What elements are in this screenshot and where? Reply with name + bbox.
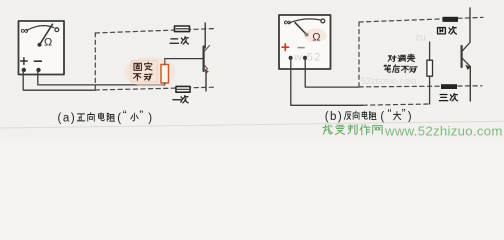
M1 plus terminal label: [21, 58, 28, 65]
dashed bottom wire through first-test resistor: [95, 87, 214, 90]
fixed (do not move) label box: [131, 61, 157, 83]
transistor Q1 emitter lead: [205, 70, 207, 91]
dashed box right circuit left edge: [358, 22, 360, 87]
svg-text:”: ”: [402, 107, 406, 121]
caption (b) parenthetical large: [380, 107, 391, 123]
wire from M2 right terminal down and right: [305, 58, 359, 87]
dashed top wire through fourth-test resistor: [359, 17, 483, 22]
svg-text:(: (: [380, 111, 384, 123]
transistor Q1 emitter slant with arrow: [204, 65, 209, 74]
bottom wire dashed run: [363, 104, 430, 105]
M2 left terminal dot: [289, 56, 293, 60]
svg-text:www.52zhizuo.com: www.52zhizuo.com: [384, 123, 503, 138]
base resistor RB1 (orange): [161, 59, 169, 85]
svg-text:”: ”: [139, 108, 143, 122]
M1 ohm label: [44, 36, 52, 48]
M1 minus terminal label: [34, 60, 41, 62]
M2 needle: [295, 23, 308, 37]
M2 right terminal dot: [303, 56, 307, 60]
transistor Q1 collector lead: [204, 23, 206, 48]
M1 infinity mark: [21, 25, 29, 37]
green watermark latin url: [384, 123, 503, 138]
transistor Q2 emitter lead: [469, 66, 471, 101]
series resistor top lead (hanging): [429, 42, 431, 60]
label si-ci (fourth time): [437, 26, 456, 34]
dashed top wire through second-test resistor: [95, 29, 214, 33]
resistor R4 filled (fourth test): [443, 17, 459, 22]
transistor Q2 base bar: [461, 46, 463, 67]
pink haze behind M2 ohm: [305, 29, 327, 43]
wire from M1 plus terminal down and right: [23, 70, 95, 90]
M2 minus terminal label: [298, 47, 304, 49]
swap-probes label line2 bi-hou-bu-dong: [384, 65, 417, 73]
caption (b) fan-xiang-dian-zu glyphs: [344, 111, 376, 119]
M1 zero mark: [55, 28, 59, 32]
riser from bottom wire to series resistor: [429, 76, 431, 104]
label er-ci (second time): [170, 37, 188, 44]
svg-text:(a): (a): [58, 112, 77, 124]
bottom wire solid run: [291, 104, 363, 106]
M1 needle: [38, 24, 53, 47]
wire from base resistor to Q1 base: [165, 58, 204, 60]
pink highlight blob behind fixed label: [124, 57, 176, 87]
svg-text:): ): [408, 111, 412, 123]
caption (b) latin part: [325, 111, 343, 123]
ohmmeter M2 box: [279, 15, 331, 69]
svg-text:w.52: w.52: [293, 52, 321, 64]
bottom gray rule: [0, 121, 504, 128]
dashed box left edge: [94, 33, 96, 90]
svg-text:Ω: Ω: [312, 31, 320, 43]
faint gray watermark fragment above right bottom wire: [361, 76, 417, 86]
M2 ohm label: [312, 31, 320, 43]
svg-text:): ): [148, 112, 152, 124]
label san-ci (third time): [439, 93, 457, 100]
svg-text:“: “: [388, 107, 392, 121]
svg-text:(b): (b): [325, 111, 343, 123]
series resistor R5 vertical: [427, 60, 433, 76]
ohmmeter M1 box: [19, 21, 65, 75]
svg-text:(: (: [117, 112, 121, 124]
M2 plus terminal label (red): [282, 44, 289, 50]
svg-text:52zhizuo.com: 52zhizuo.com: [361, 76, 417, 86]
dashed bottom wire through third-test resistor: [359, 86, 482, 87]
faint gray watermark fragment above series resistor: [415, 33, 426, 44]
swap-probes label line1 dui-diao-biao: [388, 54, 415, 62]
svg-text:“: “: [123, 108, 127, 122]
fixed label text line2 bu-dong: [133, 74, 152, 81]
caption (a) parenthetical small: [117, 108, 126, 124]
green watermark chinese wo-ai-zhi-zuo-wang: [323, 124, 382, 134]
caption (a) latin part: [58, 112, 77, 124]
transistor Q1 base bar: [203, 47, 205, 72]
M1 minus terminal dot: [36, 68, 40, 72]
label yi-ci (first time): [173, 96, 188, 103]
scan grain overlay: [0, 0, 504, 139]
transistor Q2 collector slant: [462, 42, 470, 50]
page background: [0, 0, 504, 139]
transistor Q1 collector slant: [204, 45, 209, 51]
caption (a) zheng-xiang-dian-zu glyphs: [77, 113, 114, 122]
svg-text:zu: zu: [415, 33, 426, 44]
M1 plus terminal dot: [22, 68, 26, 72]
M2 zero mark: [321, 19, 325, 23]
transistor Q2 emitter slant with arrow: [462, 58, 470, 70]
M1 scale arc: [27, 26, 54, 31]
resistor R6 filled (third test): [441, 84, 457, 89]
faint gray watermark fragment across M2 lower area: [293, 52, 321, 64]
resistor R2 horizontal (second test): [175, 26, 190, 32]
resistor R3 horizontal (first test): [176, 86, 190, 92]
fixed label text line1 gu-ding: [134, 62, 152, 70]
M2 scale arc: [289, 19, 321, 23]
svg-text:Ω: Ω: [44, 36, 52, 48]
wire from M1 minus terminal down and right to base resistor: [38, 70, 165, 85]
transistor Q2 collector lead: [469, 8, 471, 42]
M2 infinity mark: [284, 16, 292, 28]
wire from M2 left terminal down: [290, 58, 292, 105]
